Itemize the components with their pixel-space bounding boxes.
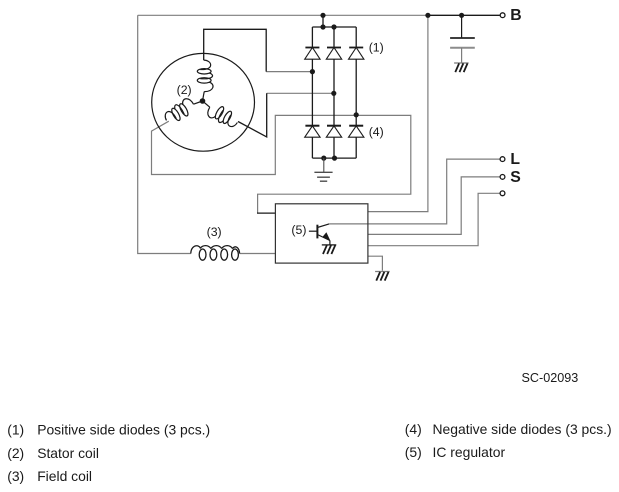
wire phase2 to leg2 <box>267 92 334 94</box>
node bottom bus leg2 <box>332 156 337 161</box>
diode D1 positive <box>305 27 320 126</box>
svg-text:(2): (2) <box>7 445 24 461</box>
wire third terminal <box>368 193 500 245</box>
svg-text:S: S <box>510 169 521 186</box>
svg-text:B: B <box>510 7 521 24</box>
node stator neutral dot <box>200 98 206 104</box>
svg-text:(2): (2) <box>177 83 192 97</box>
svg-text:Negative side diodes (3 pcs.): Negative side diodes (3 pcs.) <box>433 421 612 437</box>
field coil L (3) <box>191 246 240 261</box>
capacitor C <box>450 15 475 63</box>
node B bus bridge tap <box>320 13 325 18</box>
diode D4 negative <box>305 126 320 158</box>
wire bottom bus of bridge <box>312 157 356 159</box>
stator circle <box>152 53 255 151</box>
node riser tap <box>425 13 430 18</box>
svg-text:(5): (5) <box>405 444 422 460</box>
terminal unnamed circle <box>500 191 505 196</box>
wire riser B to regulator <box>368 15 428 211</box>
coil top winding <box>197 60 213 101</box>
diode D6 negative <box>349 126 364 158</box>
node phase2 leg2 <box>331 91 336 96</box>
svg-text:(1): (1) <box>7 421 24 437</box>
svg-text:Stator coil: Stator coil <box>37 445 99 461</box>
diode D5 negative <box>326 126 341 158</box>
coil left winding <box>162 92 205 126</box>
diode D3 positive <box>349 27 364 126</box>
svg-text:(4): (4) <box>369 125 384 139</box>
diode D2 positive <box>326 27 341 126</box>
wire regulator ground stub <box>368 256 383 271</box>
terminal L circle <box>500 157 505 162</box>
node phase1 leg1 <box>310 69 315 74</box>
node bridge top bus tap <box>320 24 325 29</box>
IC regulator box U (5) <box>275 204 368 263</box>
transistor Q inside regulator <box>309 224 330 245</box>
svg-text:(5): (5) <box>291 223 306 237</box>
svg-text:(3): (3) <box>207 225 222 239</box>
transistor emitter arrow <box>323 232 331 241</box>
wire black segment into regulator left <box>257 212 275 214</box>
wire phase1 black <box>204 29 267 71</box>
wire S terminal <box>368 177 500 235</box>
wire phase1 to leg1 <box>266 71 312 73</box>
node bridge top bus leg2 <box>331 24 336 29</box>
svg-text:(3): (3) <box>7 468 24 484</box>
svg-text:Field coil: Field coil <box>37 468 92 484</box>
terminal B circle <box>500 13 505 18</box>
svg-text:(1): (1) <box>369 41 384 55</box>
wire top bus of bridge <box>312 26 356 28</box>
wire left frame edge down and bottom to field coil <box>138 15 191 253</box>
wire phase2 black <box>238 93 267 137</box>
ground earth below bridge <box>314 158 332 181</box>
wire B external black <box>428 14 500 16</box>
svg-text:(4): (4) <box>405 421 422 437</box>
svg-text:L: L <box>510 151 520 168</box>
junction dots <box>310 13 464 161</box>
diode bridge black <box>312 15 356 158</box>
wire top bus gray <box>138 14 428 16</box>
wire field coil to regulator <box>240 253 276 255</box>
svg-text:Positive side diodes (3 pcs.): Positive side diodes (3 pcs.) <box>37 421 210 437</box>
ground chassis below regulator <box>375 272 390 281</box>
ground chassis at capacitor <box>454 63 469 72</box>
stator coil (2) three windings <box>162 60 241 130</box>
coil right winding <box>197 96 240 130</box>
wire frame: B+ bus top and left side feeding field coil <box>138 15 500 270</box>
svg-text:IC regulator: IC regulator <box>433 444 506 460</box>
node capacitor tap <box>459 13 464 18</box>
node bottom bus ground tap <box>321 156 326 161</box>
svg-text:SC-02093: SC-02093 <box>522 371 579 385</box>
ground chassis at emitter <box>322 245 337 254</box>
wire tap bridge to B bus <box>322 15 324 27</box>
legend <box>7 421 611 484</box>
node phase3 leg3 <box>354 112 359 117</box>
wire phase3 wrap loop to regulator <box>152 115 411 213</box>
wire L terminal <box>329 159 500 224</box>
terminal S circle <box>500 175 505 180</box>
